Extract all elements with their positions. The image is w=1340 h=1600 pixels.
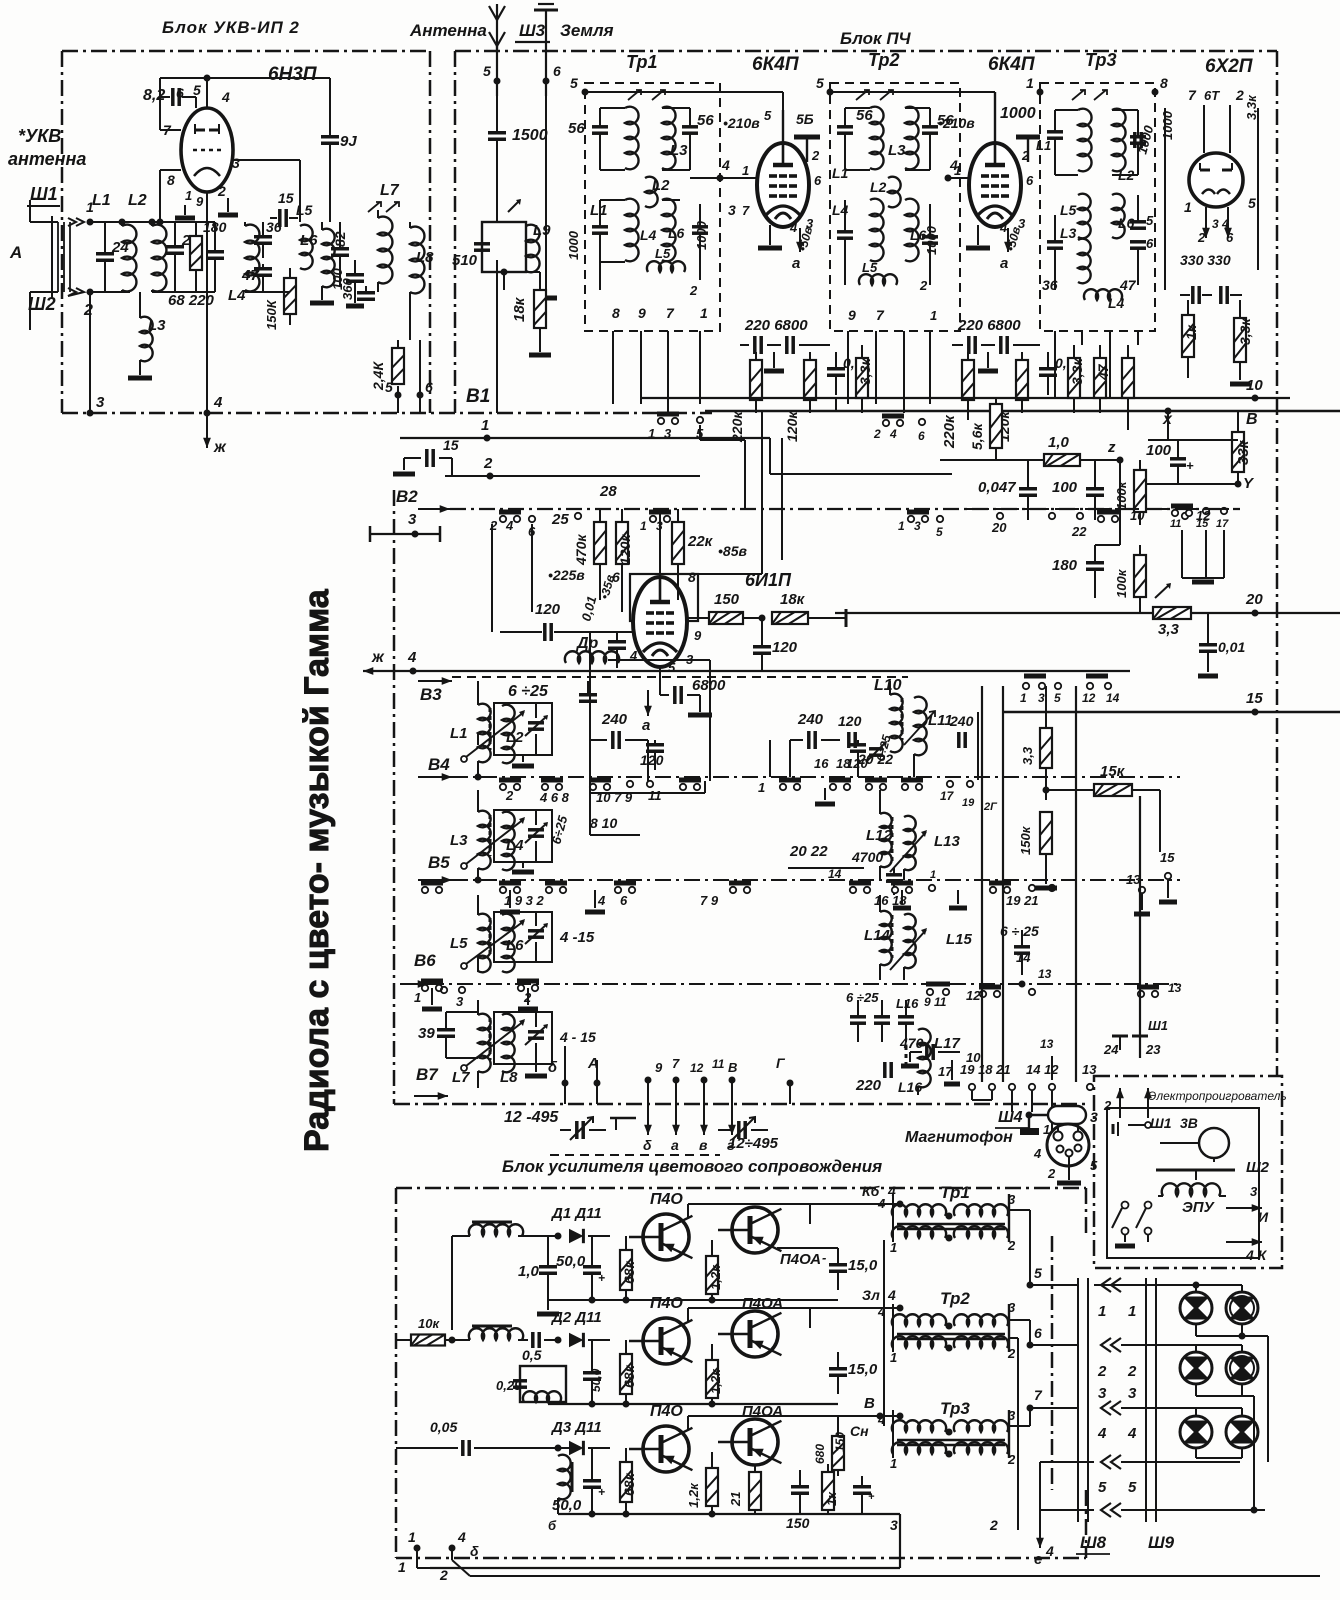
electrolytic 100 <box>1146 440 1194 482</box>
line 20 <box>835 612 1340 614</box>
block border ПЧ left <box>454 51 457 413</box>
title Радиола с цвето- музыкой Гамма <box>298 588 336 1152</box>
wire L1 to B3 <box>477 681 479 745</box>
label L10 <box>874 677 902 694</box>
svg-text:150К: 150К <box>264 299 279 330</box>
switch row B2 line <box>418 505 1240 513</box>
svg-text:Ш1: Ш1 <box>1150 1115 1172 1131</box>
wire lamp right rail <box>1242 1396 1258 1514</box>
svg-text:7: 7 <box>666 305 675 321</box>
svg-text:а: а <box>671 1137 679 1153</box>
svg-text:4: 4 <box>889 427 897 441</box>
svg-text:В3: В3 <box>420 685 442 704</box>
core L5L6 <box>489 918 492 958</box>
svg-text:Г: Г <box>776 1055 786 1071</box>
svg-text:2: 2 <box>873 427 881 441</box>
pin labels tube3 <box>954 148 1034 235</box>
gnd epu <box>1115 1235 1148 1246</box>
svg-text:3: 3 <box>1008 1192 1016 1207</box>
label +35в <box>597 573 617 601</box>
label 0,01 rot <box>578 594 599 622</box>
svg-text:*УКВ: *УКВ <box>18 126 61 146</box>
svg-text:3: 3 <box>1038 691 1045 705</box>
contact nums B4 <box>505 788 662 805</box>
trim arrows Тр1 <box>628 90 665 100</box>
svg-text:6: 6 <box>1034 1325 1042 1341</box>
coil L11 <box>914 697 953 756</box>
capacitor 220 <box>206 222 224 292</box>
svg-text:Ш2: Ш2 <box>1246 1159 1270 1176</box>
capacitor 240 b <box>790 711 840 749</box>
label 1000 top <box>1000 105 1036 122</box>
svg-text:L9: L9 <box>533 222 551 239</box>
capacitor 0,01 grid <box>608 632 626 668</box>
pin 1 9 2 3 labels <box>185 155 240 209</box>
capacitor 120 c <box>640 740 664 770</box>
svg-text:1: 1 <box>414 990 421 1005</box>
gnd B5a <box>500 890 520 912</box>
wire z down <box>1095 460 1120 545</box>
pentode 6К4П a <box>757 143 809 227</box>
svg-text:4 К: 4 К <box>1245 1247 1268 1263</box>
svg-text:1000: 1000 <box>694 220 709 250</box>
wire g in b <box>948 177 969 179</box>
coil L4 tr1 <box>600 199 657 262</box>
resistor 18к <box>511 272 546 352</box>
svg-text:15: 15 <box>1246 690 1263 707</box>
svg-text:6 ÷25: 6 ÷25 <box>846 990 879 1005</box>
svg-text:3: 3 <box>232 155 240 171</box>
labels top arrows <box>655 1056 737 1075</box>
label Ш1 <box>27 184 60 206</box>
svg-text:470: 470 <box>899 1035 924 1051</box>
svg-text:+: + <box>1186 458 1194 473</box>
svg-text:2: 2 <box>1021 148 1030 163</box>
svg-text:9: 9 <box>655 1060 663 1075</box>
capacitor 240 a <box>590 711 648 749</box>
wire cap39 <box>446 1012 478 1058</box>
capacitor 100 z <box>1052 460 1104 520</box>
svg-text:δ: δ <box>643 1137 652 1153</box>
svg-text:7: 7 <box>742 203 750 218</box>
capacitor 9J <box>321 78 357 222</box>
svg-text:1: 1 <box>640 519 647 533</box>
capacitor 1000b tr2 <box>922 204 939 285</box>
wire emitter s1 <box>777 1247 838 1249</box>
node 4 tr2 <box>945 157 959 182</box>
svg-text:L8: L8 <box>500 1069 518 1086</box>
capacitor 0,05 <box>396 1419 490 1456</box>
bottom rail amp <box>430 1514 900 1568</box>
resistor 47 <box>1094 345 1111 413</box>
svg-text:6К4П: 6К4П <box>752 54 799 75</box>
capacitor 360 <box>340 278 375 300</box>
svg-text:50,0: 50,0 <box>552 1497 582 1514</box>
svg-text:П4О: П4О <box>650 1295 683 1312</box>
capacitor 50,0 s2 <box>583 1340 603 1404</box>
svg-text:4: 4 <box>505 518 514 533</box>
svg-text:220к: 220к <box>941 414 958 449</box>
capacitor 56 tr2 <box>837 107 873 170</box>
wire collector s3 <box>688 1416 880 1430</box>
resistor 68к s1 <box>620 1236 637 1300</box>
coil L5 tr3 <box>1060 194 1091 241</box>
capacitor tr3 1 <box>1036 110 1063 175</box>
svg-text:Электропроигрователь: Электропроигрователь <box>1148 1089 1287 1103</box>
svg-text:L5: L5 <box>862 260 878 275</box>
svg-text:+: + <box>598 1271 605 1285</box>
svg-text:19: 19 <box>962 797 975 809</box>
wire B4 right segment <box>769 740 771 777</box>
svg-text:4: 4 <box>407 649 417 666</box>
contact nums B4 right <box>758 751 998 813</box>
wire left col down <box>451 1236 453 1330</box>
svg-text:8 10: 8 10 <box>590 815 617 831</box>
node 8 tr3 <box>1152 75 1169 96</box>
ground earth bar <box>535 296 557 301</box>
label УКВ антенна <box>8 126 86 169</box>
wire lamps2 bot <box>1196 1384 1254 1396</box>
svg-text:21: 21 <box>728 1492 743 1507</box>
bandswitch coil L7 <box>452 1014 491 1086</box>
svg-text:L2: L2 <box>652 177 670 194</box>
label ЭПУ <box>1182 1199 1216 1216</box>
capacitor 0,5 <box>522 1332 558 1363</box>
svg-text:8: 8 <box>612 305 620 321</box>
label П4ОА s3 <box>742 1403 783 1420</box>
node 1 line <box>400 417 770 442</box>
wire junction <box>119 219 156 226</box>
coil L3 tr1 <box>662 107 690 170</box>
svg-text:L2: L2 <box>1118 167 1135 183</box>
label 17 r <box>938 1037 1054 1084</box>
label 10 r <box>966 1050 981 1065</box>
label 6К4П b <box>988 54 1035 75</box>
svg-text:4: 4 <box>1127 1425 1137 1442</box>
svg-text:0,5: 0,5 <box>522 1347 542 1363</box>
wire earth down <box>545 81 547 295</box>
svg-text:10: 10 <box>1246 377 1263 394</box>
label Ш4 <box>995 1109 1028 1128</box>
resistor 3,3к a <box>856 345 873 413</box>
capacitor 0,01 a <box>827 352 870 395</box>
svg-text:2: 2 <box>1007 1346 1016 1361</box>
lamp Л5 <box>1180 1416 1212 1448</box>
wire L3 bottom to B5 <box>475 868 482 884</box>
svg-text:17: 17 <box>938 1064 953 1079</box>
coil L5 tr2 <box>859 260 897 285</box>
svg-text:9: 9 <box>694 628 702 643</box>
transistor П4О s3 <box>629 1426 692 1472</box>
label +85в <box>718 543 747 559</box>
svg-text:5: 5 <box>1248 195 1256 211</box>
resistor 3,3к b <box>1068 345 1085 413</box>
svg-text:А: А <box>9 243 22 262</box>
svg-text:20 22: 20 22 <box>789 843 828 860</box>
capacitor 330 b <box>1218 286 1242 304</box>
svg-text:L3: L3 <box>888 142 906 159</box>
epu coil <box>1158 1183 1226 1196</box>
label +225в <box>548 567 585 583</box>
svg-text:4700: 4700 <box>851 849 883 865</box>
label Сн <box>850 1423 869 1439</box>
box L2 <box>494 703 552 755</box>
node 5 tr1 <box>570 75 589 96</box>
capacitor 100 <box>330 260 364 300</box>
node 5 <box>385 379 402 399</box>
svg-text:антенна: антенна <box>8 149 86 169</box>
svg-text:14: 14 <box>828 867 842 881</box>
box 6И1П grid <box>630 574 698 621</box>
svg-text:9J: 9J <box>340 133 357 150</box>
connector Ш4 body <box>1047 1124 1089 1166</box>
bottom rail s1 <box>548 1297 838 1304</box>
svg-text:10к: 10к <box>418 1316 440 1331</box>
capacitor 220 r <box>855 1062 922 1095</box>
svg-text:4: 4 <box>1097 1425 1107 1442</box>
svg-text:8: 8 <box>688 569 696 585</box>
trim arrows Тр3 <box>1072 90 1107 100</box>
svg-text:В: В <box>728 1060 737 1075</box>
svg-text:3: 3 <box>1018 216 1026 231</box>
switch cluster z <box>1170 506 1229 530</box>
svg-text:В: В <box>1246 411 1258 428</box>
coil L14 <box>880 895 892 980</box>
arrow contact 2 <box>68 288 84 296</box>
svg-text:3В: 3В <box>1180 1115 1198 1131</box>
svg-text:5: 5 <box>570 75 578 91</box>
label Тр2 out <box>940 1289 970 1308</box>
label 68 220 <box>168 292 215 309</box>
capacitor 470 left <box>579 681 597 701</box>
pin nums tr2 <box>848 278 937 323</box>
svg-text:2: 2 <box>1047 1166 1056 1181</box>
svg-text:2: 2 <box>1235 87 1244 103</box>
gnd sh4 <box>1057 1157 1081 1183</box>
svg-text:L5: L5 <box>296 202 313 218</box>
pin nums tr1 <box>612 283 708 321</box>
svg-text:2: 2 <box>505 788 514 803</box>
transistor П4ОА s2 <box>718 1311 781 1357</box>
arrow a down <box>642 690 652 734</box>
svg-text:6И1П: 6И1П <box>745 570 792 590</box>
capacitor 15,0 s2 <box>829 1352 878 1394</box>
wire 6X2P top <box>1204 105 1230 153</box>
svg-text:3: 3 <box>408 511 417 528</box>
switch row B5 <box>418 876 1180 884</box>
svg-text:5: 5 <box>936 525 943 539</box>
wire antenna in <box>30 200 58 330</box>
svg-text:1: 1 <box>930 308 937 323</box>
wire collector s2 <box>688 1308 810 1328</box>
svg-text:1: 1 <box>1026 75 1034 91</box>
svg-text:13: 13 <box>1168 981 1182 995</box>
svg-text:6К4П: 6К4П <box>988 54 1035 75</box>
antenna symbol <box>489 6 505 52</box>
gnd b5r <box>893 890 967 908</box>
svg-text:L1: L1 <box>450 725 468 742</box>
label Электропроигрователь <box>1148 1089 1287 1103</box>
svg-text:L14: L14 <box>864 927 891 944</box>
ground symbol earth <box>534 0 558 26</box>
svg-text:4 6 8: 4 6 8 <box>539 790 570 805</box>
contacts B3 right <box>1020 676 1120 705</box>
svg-text:1: 1 <box>1128 1303 1136 1320</box>
svg-text:L13: L13 <box>934 833 961 850</box>
svg-text:14: 14 <box>1016 950 1031 965</box>
label В5 <box>428 853 450 872</box>
svg-text:47: 47 <box>1095 363 1111 381</box>
label Тр2 <box>868 50 900 70</box>
bottom wire 2 <box>439 1548 900 1583</box>
block border УКВ-ИП right <box>429 51 432 413</box>
svg-text:24: 24 <box>1103 1042 1119 1057</box>
capacitor 36 <box>254 219 282 258</box>
wire 858 down <box>857 762 859 777</box>
box L6 <box>494 912 552 962</box>
svg-text:L4: L4 <box>506 837 524 854</box>
svg-text:1,2к: 1,2к <box>686 1482 701 1508</box>
label Антенна <box>409 21 487 40</box>
svg-text:18к: 18к <box>780 591 806 608</box>
label 4-15 a <box>559 929 595 946</box>
caps 220 6800 (2) <box>952 317 1040 354</box>
capacitor cs3 <box>853 1476 875 1514</box>
svg-text:5: 5 <box>1054 691 1061 705</box>
block Тр3 border <box>1040 83 1155 331</box>
coax feeder lines <box>52 216 70 298</box>
wire top rail ukv <box>152 222 215 292</box>
capacitor tr3 2 <box>1130 110 1157 175</box>
wire 2 line <box>451 458 453 476</box>
coil L8 band <box>500 1014 518 1086</box>
label Д2 Д11 <box>550 1309 602 1326</box>
connector Ш9 lines <box>1146 1278 1156 1522</box>
wire right mid vert2 <box>977 712 979 780</box>
tonearm bar <box>1156 1170 1235 1180</box>
chevrons row4 <box>1040 1425 1240 1490</box>
pin labels 6i1p <box>629 628 702 675</box>
wire sec gnd rail <box>1009 1338 1018 1530</box>
node 10 <box>1246 377 1263 402</box>
svg-text:1,2к: 1,2к <box>708 1264 723 1290</box>
label A <box>9 243 22 262</box>
svg-text:3: 3 <box>1128 1385 1137 1402</box>
wire k <box>157 170 182 226</box>
capacitor 1000 tr2 <box>837 200 853 285</box>
label 4 К <box>1226 1238 1268 1263</box>
diode tube 6Х2П <box>1189 153 1243 207</box>
svg-text:68к: 68к <box>621 1364 637 1388</box>
svg-text:2: 2 <box>989 1517 998 1533</box>
epu switch <box>1112 1202 1152 1235</box>
capacitor 240 r2 <box>949 713 974 748</box>
trim arrows L7 <box>368 202 399 212</box>
core L7L8 <box>489 1018 492 1060</box>
resistor 1к <box>1182 300 1199 378</box>
ground k1 <box>758 225 782 248</box>
coil L3 tr2 <box>888 107 930 170</box>
svg-text:L16: L16 <box>898 1079 922 1095</box>
svg-text:3,3к: 3,3к <box>1244 94 1259 120</box>
svg-text:8,2: 8,2 <box>143 87 165 104</box>
svg-text:50,0: 50,0 <box>589 1368 603 1392</box>
svg-text:20: 20 <box>991 520 1007 535</box>
wire vert col 1140 <box>1135 790 1140 1058</box>
svg-text:ж: ж <box>213 439 227 456</box>
coil L5 <box>296 202 313 269</box>
capacitor 6800 het <box>660 667 726 704</box>
svg-text:6: 6 <box>814 173 822 188</box>
svg-text:5: 5 <box>385 379 393 395</box>
trim arrow L13 <box>890 830 927 872</box>
resistor 150 anode <box>687 591 760 624</box>
svg-text:12: 12 <box>1082 691 1096 705</box>
svg-text:1000: 1000 <box>1160 110 1175 140</box>
labels 330 330 <box>1180 252 1231 268</box>
capacitor 120 d <box>846 740 868 771</box>
svg-text:4: 4 <box>789 220 798 235</box>
wire mid vert <box>589 632 591 790</box>
svg-text:4: 4 <box>597 893 606 908</box>
label В right amp <box>864 1395 875 1412</box>
svg-text:-: - <box>822 1250 826 1265</box>
core L12L13 <box>891 817 894 861</box>
coil L16 <box>905 1046 908 1066</box>
svg-text:11: 11 <box>712 1057 725 1071</box>
resistor 10k input <box>396 1316 456 1346</box>
svg-text:И: И <box>1258 1209 1269 1225</box>
svg-text:150: 150 <box>833 1432 847 1452</box>
node z <box>1107 439 1124 464</box>
svg-text:20: 20 <box>1245 591 1263 608</box>
svg-text:+: + <box>598 1485 605 1499</box>
svg-text:L4: L4 <box>228 287 246 304</box>
svg-text:4: 4 <box>457 1529 466 1545</box>
svg-text:9: 9 <box>848 307 856 323</box>
svg-text:В4: В4 <box>428 755 450 774</box>
wire vert 782 <box>698 438 782 574</box>
svg-text:Тр1: Тр1 <box>626 52 658 72</box>
wire 1 corner <box>770 438 952 474</box>
capacitor 180 <box>1052 545 1104 598</box>
wire lamps1 bot <box>1196 1324 1268 1462</box>
svg-text:а: а <box>642 717 650 734</box>
svg-text:3: 3 <box>1008 1408 1016 1423</box>
svg-text:П4ОА: П4ОА <box>742 1295 783 1312</box>
svg-text:2,4К: 2,4К <box>370 361 386 391</box>
svg-text:Тр3: Тр3 <box>940 1399 970 1418</box>
svg-text:L4: L4 <box>832 202 849 218</box>
wire lamps3 <box>1178 1408 1242 1416</box>
wire vert col 660 up <box>659 514 661 577</box>
triode 6Н3П <box>181 108 233 192</box>
switch contacts B1 right <box>648 414 704 441</box>
trimcap L6 <box>525 912 548 962</box>
inner box epu <box>1107 1108 1259 1258</box>
resistor 68к s2 <box>620 1340 637 1404</box>
connector Ш4 pin nums <box>1033 1146 1098 1181</box>
tank L9 circuit <box>482 199 526 272</box>
wire L3 top <box>477 790 479 812</box>
caps 6-25 d <box>850 1000 914 1042</box>
wire 5 down <box>397 395 399 413</box>
svg-text:3,3: 3,3 <box>1020 746 1035 765</box>
label 4700 <box>851 849 883 865</box>
lamp Л2 <box>1226 1292 1258 1324</box>
node 6 earth <box>543 63 562 85</box>
svg-text:L4: L4 <box>1108 295 1125 311</box>
